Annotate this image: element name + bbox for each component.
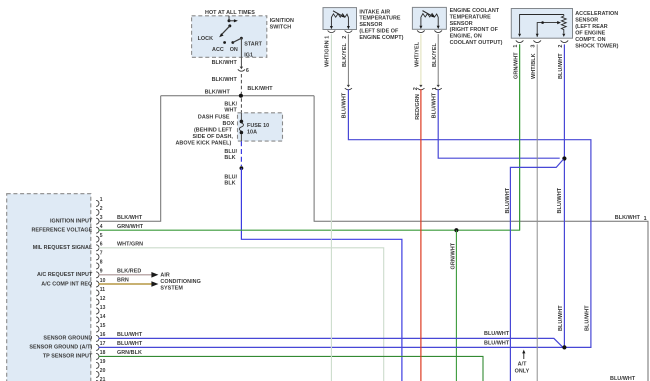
svg-text:IG1: IG1 — [244, 53, 253, 59]
wire BLU/BLK dashed below fuse box — [240, 141, 242, 166]
svg-text:2: 2 — [558, 44, 564, 47]
svg-text:SENSOR GROUND (A/T): SENSOR GROUND (A/T) — [29, 345, 92, 351]
ECU pin 5 connector bracket — [96, 236, 99, 242]
svg-text:RED/GRN: RED/GRN — [415, 94, 421, 120]
wire BLK/YEL from ECT pin 1 — [437, 34, 439, 86]
svg-text:OF ENGINE: OF ENGINE — [575, 30, 605, 36]
IAT connector arcs — [328, 31, 353, 33]
svg-text:11: 11 — [100, 287, 106, 293]
wire GRN/WHT branch down off-page — [455, 230, 457, 381]
svg-text:SYSTEM: SYSTEM — [160, 286, 183, 292]
label: IGNITION SWITCH — [270, 18, 294, 31]
potentiometer symbol acceleration sensor — [518, 15, 566, 37]
svg-text:(RIGHT FRONT OF: (RIGHT FRONT OF — [450, 27, 499, 33]
svg-text:BLU/WHT: BLU/WHT — [585, 305, 591, 331]
svg-text:WHT/GRN: WHT/GRN — [117, 242, 143, 248]
svg-text:SENSOR GROUND: SENSOR GROUND — [43, 336, 92, 342]
svg-text:BLK/WHT: BLK/WHT — [212, 60, 238, 66]
ECU pin 12 connector bracket — [96, 299, 99, 305]
wire GRN/WHT pin 4 reference voltage — [99, 44, 520, 230]
svg-text:BLU/WHT: BLU/WHT — [610, 376, 636, 381]
thermistor symbol ECT — [419, 11, 439, 29]
label: ENGINE COOLANT TEMPERATURE SENSOR (RIGHT FRONT OF ENGINE, ON COOLANT OUTPUT) — [450, 8, 503, 46]
inline connector 6 — [238, 67, 249, 75]
inline connector on ECT pin 1 wire, pin 1 — [432, 85, 442, 90]
splice junction J2 — [240, 166, 244, 170]
svg-text:SIDE OF DASH,: SIDE OF DASH, — [193, 134, 234, 140]
svg-text:1: 1 — [100, 197, 103, 203]
svg-text:BLU/WHT: BLU/WHT — [432, 92, 438, 118]
svg-text:BLK/WHT: BLK/WHT — [117, 215, 143, 221]
svg-text:AIR: AIR — [160, 273, 169, 279]
label: BLK/WHT 1 (right edge) — [615, 215, 647, 222]
fuse FUSE 10 10A — [239, 113, 243, 141]
svg-text:DASH FUSE: DASH FUSE — [198, 115, 230, 121]
svg-text:START: START — [244, 41, 262, 47]
wire BLK/WHT dashed from junction to fuse box — [240, 98, 242, 113]
acceleration sensor connector arcs — [516, 40, 568, 42]
svg-text:4: 4 — [100, 224, 103, 230]
ECU control module box — [7, 194, 91, 381]
ECU pin 18 connector bracket — [96, 353, 99, 359]
wire WHT/BLK from acceleration pin 3 off-page bottom — [536, 44, 538, 381]
svg-text:BLU/WHT: BLU/WHT — [558, 305, 564, 331]
svg-text:9: 9 — [100, 269, 103, 275]
svg-text:5: 5 — [100, 233, 103, 239]
ECU pin 17 connector bracket — [96, 344, 99, 350]
wire BLU/WHT from ECT pin 1 to junction J4 — [438, 89, 560, 158]
wire WHT/GRN pin 6 MIL request — [99, 248, 384, 381]
svg-text:BLK/YEL: BLK/YEL — [342, 43, 348, 67]
wire BLK/RED pin 9 A/C request — [99, 274, 152, 276]
svg-text:ENGINE COMPT): ENGINE COMPT) — [359, 35, 403, 41]
svg-text:18: 18 — [100, 350, 106, 356]
wire BLU/WHT from acceleration pin 2 down through junctions — [563, 44, 565, 347]
svg-text:BLK/WHT: BLK/WHT — [247, 86, 273, 92]
svg-text:BLU/WHT: BLU/WHT — [558, 53, 564, 79]
svg-text:GRN/BLK: GRN/BLK — [117, 350, 142, 356]
label: BLU/ BLK — [224, 175, 237, 187]
svg-text:GRN/WHT: GRN/WHT — [117, 224, 144, 230]
svg-text:ABOVE KICK PANEL): ABOVE KICK PANEL) — [175, 141, 231, 147]
svg-text:A/C COMP INT REQ: A/C COMP INT REQ — [41, 281, 92, 287]
svg-text:21: 21 — [100, 377, 106, 381]
ignition switch box — [192, 16, 267, 58]
svg-text:(LEFT REAR: (LEFT REAR — [575, 24, 608, 30]
wire BLU/WHT from IAT pin 2 to lower junction — [348, 89, 591, 347]
svg-text:(BEHIND LEFT: (BEHIND LEFT — [194, 128, 233, 134]
inline connector on IAT pin 2 wire — [345, 85, 352, 90]
svg-text:WHT: WHT — [224, 108, 237, 114]
ECU pin 4 connector bracket — [96, 227, 99, 233]
svg-text:SWITCH: SWITCH — [270, 25, 292, 31]
svg-text:14: 14 — [100, 314, 106, 320]
svg-text:GRN/WHT: GRN/WHT — [450, 242, 456, 269]
ECU pin 6 connector bracket — [96, 245, 99, 251]
svg-text:ENGINE, ON: ENGINE, ON — [450, 34, 482, 40]
ECU pin connectors 1-21 — [96, 200, 99, 381]
junction J1 — [239, 94, 243, 98]
ECU pin 3 connector bracket — [96, 218, 99, 224]
svg-text:3: 3 — [100, 215, 103, 221]
svg-text:GRN/WHT: GRN/WHT — [514, 52, 520, 79]
label: ACCELERATION SENSOR (LEFT REAR OF ENGINE COMPT. ON SHOCK TOWER) — [575, 11, 618, 50]
wire BLK/WHT right leg down and across to right edge — [314, 96, 648, 381]
ECU pin 13 connector bracket — [96, 308, 99, 314]
svg-text:19: 19 — [100, 359, 106, 365]
svg-text:1: 1 — [325, 36, 331, 39]
svg-text:A/T: A/T — [518, 362, 527, 368]
svg-text:WHT/GRN: WHT/GRN — [325, 40, 331, 67]
ECU pin 16 connector bracket — [96, 335, 99, 341]
svg-text:BRN: BRN — [117, 278, 129, 284]
svg-text:BLU/WHT: BLU/WHT — [117, 332, 143, 338]
svg-text:WHT/YEL: WHT/YEL — [415, 41, 421, 67]
svg-text:BLU/WHT: BLU/WHT — [484, 341, 510, 347]
svg-text:BOX: BOX — [223, 121, 235, 127]
svg-text:SENSOR: SENSOR — [575, 17, 598, 23]
svg-text:2: 2 — [100, 206, 103, 212]
svg-text:BLU/WHT: BLU/WHT — [505, 187, 511, 213]
svg-text:(LEFT SIDE OF: (LEFT SIDE OF — [359, 28, 399, 34]
svg-text:BLU/WHT: BLU/WHT — [117, 341, 143, 347]
wire BLU/WHT pin 16 sensor ground — [99, 338, 563, 347]
ECU pin 2 connector bracket — [96, 209, 99, 215]
svg-text:13: 13 — [100, 305, 106, 311]
ECU pin 21 connector bracket — [96, 380, 99, 381]
ECU pin 1 connector bracket — [96, 200, 99, 206]
svg-text:ACCELERATION: ACCELERATION — [575, 11, 618, 17]
svg-text:20: 20 — [100, 368, 106, 374]
svg-text:SHOCK TOWER): SHOCK TOWER) — [575, 43, 618, 49]
wire BLU/WHT jog from J4 down-left and off-page bottom — [510, 159, 563, 381]
svg-text:BLU/WHT: BLU/WHT — [484, 331, 510, 337]
svg-text:1: 1 — [513, 44, 519, 47]
ECU pin 19 connector bracket — [96, 362, 99, 368]
ECU pin 7 connector bracket — [96, 254, 99, 260]
svg-text:ACC: ACC — [212, 47, 224, 53]
svg-text:SENSOR: SENSOR — [359, 22, 382, 28]
ECU pin 20 connector bracket — [96, 371, 99, 377]
svg-text:8: 8 — [100, 260, 103, 266]
acceleration sensor box — [511, 9, 572, 39]
arrow to air conditioning system (pin 10) — [151, 281, 158, 287]
svg-text:BLK/WHT: BLK/WHT — [212, 77, 238, 83]
A/T ONLY note with arrow — [515, 350, 530, 375]
svg-text:TEMPERATURE: TEMPERATURE — [450, 14, 492, 20]
svg-text:BLK: BLK — [224, 181, 235, 187]
svg-text:BLU/WHT: BLU/WHT — [557, 187, 563, 213]
svg-text:15: 15 — [100, 323, 106, 329]
wire GRN/BLK pin 18 TP sensor — [99, 356, 483, 381]
wire BLK/WHT dashed to junction — [240, 74, 242, 94]
svg-text:IGNITION: IGNITION — [270, 18, 294, 24]
svg-text:16: 16 — [100, 332, 106, 338]
svg-text:LOCK: LOCK — [198, 36, 214, 42]
wire GRN/WHT from acceleration pin 1 (joins pin4 line) — [519, 44, 521, 230]
ignition switch S1 internals — [219, 16, 243, 44]
svg-text:COMPT. ON: COMPT. ON — [575, 37, 605, 43]
svg-text:MIL REQUEST SIGNAL: MIL REQUEST SIGNAL — [33, 245, 93, 251]
arrow to air conditioning system (pin 9) — [151, 272, 158, 278]
svg-text:BLK/YEL: BLK/YEL — [432, 43, 438, 67]
junction J5 — [562, 345, 566, 349]
svg-text:INTAKE AIR: INTAKE AIR — [359, 9, 390, 15]
wire WHT/GRN from IAT pin 1 off-page bottom — [330, 34, 332, 381]
svg-text:HOT AT ALL TIMES: HOT AT ALL TIMES — [205, 10, 255, 16]
svg-text:A/C REQUEST INPUT: A/C REQUEST INPUT — [37, 272, 93, 278]
svg-text:FUSE 10: FUSE 10 — [247, 123, 269, 129]
wire BLK/YEL from IAT pin 2 — [347, 34, 349, 86]
svg-text:REFERENCE VOLTAGE: REFERENCE VOLTAGE — [31, 228, 92, 234]
label: DASH FUSE BOX (BEHIND LEFT SIDE OF DASH, ABOVE KICK PANEL) — [175, 115, 234, 147]
svg-text:2: 2 — [342, 36, 348, 39]
svg-text:COOLANT OUTPUT): COOLANT OUTPUT) — [450, 40, 503, 46]
svg-text:6: 6 — [100, 242, 103, 248]
label: INTAKE AIR TEMPERATURE SENSOR (LEFT SIDE OF ENGINE COMPT) — [359, 9, 403, 40]
svg-text:1: 1 — [644, 216, 647, 222]
junction J4 — [562, 156, 566, 160]
ECU pin 8 connector bracket — [96, 263, 99, 269]
wire BRN pin 10 A/C comp — [99, 283, 152, 285]
svg-text:BLK/WHT: BLK/WHT — [615, 215, 641, 221]
label: BLU/ BLK — [224, 149, 237, 161]
svg-text:IGNITION INPUT: IGNITION INPUT — [50, 219, 93, 225]
wire IG1 BLK/WHT from ignition switch — [240, 38, 242, 67]
ECU pin 10 connector bracket — [96, 281, 99, 287]
ECU pin 14 connector bracket — [96, 317, 99, 323]
svg-text:TEMPERATURE: TEMPERATURE — [359, 16, 401, 22]
junction J3 on GRN/WHT — [454, 228, 458, 232]
svg-text:SENSOR: SENSOR — [450, 21, 473, 27]
ECU pin numbers 1-21 — [100, 197, 106, 381]
svg-text:BLK: BLK — [224, 155, 235, 161]
inline connector on ECT pin 2 wire, pin 2 — [413, 85, 425, 90]
svg-text:17: 17 — [100, 341, 106, 347]
wire BLK/WHT horizontal bus at top — [161, 95, 314, 97]
wire BLU/WHT pin 17 sensor ground A/T — [99, 346, 565, 348]
svg-text:10A: 10A — [247, 130, 257, 136]
intake air temperature sensor box — [323, 8, 357, 30]
svg-text:2: 2 — [413, 87, 419, 90]
svg-text:WHT/BLK: WHT/BLK — [531, 53, 537, 79]
ECU pin 9 connector bracket — [96, 272, 99, 278]
svg-text:ON: ON — [230, 47, 238, 53]
svg-text:CONDITIONING: CONDITIONING — [160, 279, 200, 285]
svg-text:BLU/WHT: BLU/WHT — [342, 92, 348, 118]
svg-text:7: 7 — [100, 251, 103, 257]
svg-text:3: 3 — [531, 44, 537, 47]
label: BLK/ WHT — [224, 102, 237, 114]
svg-text:BLK/RED: BLK/RED — [117, 269, 141, 275]
engine coolant temperature sensor box — [412, 7, 446, 29]
thermistor symbol IAT — [330, 11, 350, 29]
svg-text:ENGINE COOLANT: ENGINE COOLANT — [450, 8, 500, 14]
ECU pin 15 connector bracket — [96, 326, 99, 332]
wire WHT/YEL from ECT pin 2 — [420, 34, 422, 86]
ECU pin 11 connector bracket — [96, 290, 99, 296]
ECT connector arcs — [417, 30, 442, 32]
svg-text:1: 1 — [432, 87, 438, 90]
svg-text:ONLY: ONLY — [515, 368, 530, 374]
wire BLU/BLK solid down and right then off-page bottom — [241, 168, 402, 381]
svg-text:12: 12 — [100, 296, 106, 302]
svg-text:BLK/WHT: BLK/WHT — [205, 89, 231, 95]
wire RED/GRN from ECT pin 2 off-page bottom — [420, 89, 422, 381]
svg-text:6: 6 — [246, 68, 249, 74]
dash fuse box — [238, 113, 283, 141]
wire BLK/WHT left leg down to pin 3 — [99, 96, 161, 222]
svg-text:TP SENSOR INPUT: TP SENSOR INPUT — [43, 354, 93, 360]
label: AIR CONDITIONING SYSTEM — [160, 273, 200, 292]
svg-text:10: 10 — [100, 278, 106, 284]
